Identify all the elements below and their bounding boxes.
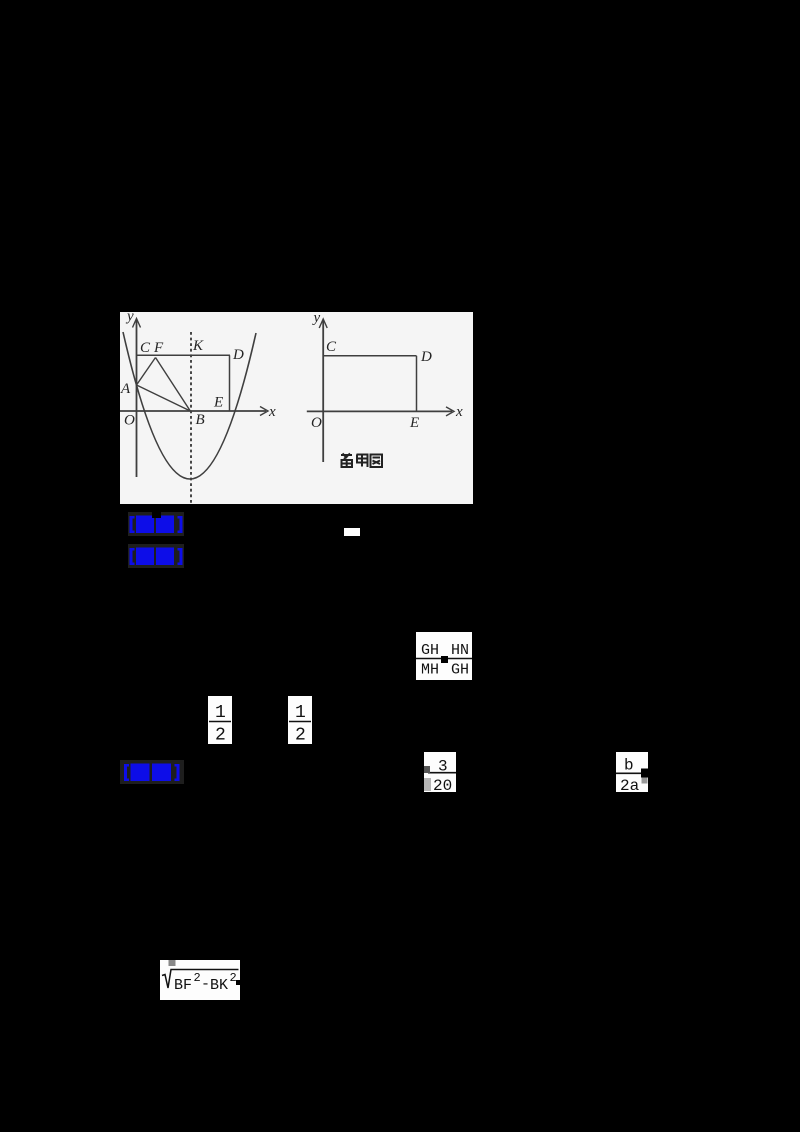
right figure y-axis [322,321,324,463]
svg-text:2a: 2a [620,777,640,792]
svg-text:K: K [192,338,204,354]
fraction bars [416,658,472,660]
right rectangle right edge DE [416,356,418,412]
svg-text:GH: GH [451,662,469,679]
svg-text:b: b [624,757,634,775]
glyph 图 [371,455,383,468]
svg-text:C: C [326,339,337,355]
triangle side A-F [137,358,156,386]
svg-text:F: F [153,340,164,356]
caption 备用图 drawn as three CJK-like glyph blocks [341,454,382,468]
fraction b/2a [616,752,648,792]
svg-text:D: D [420,349,432,365]
dashed axis of symmetry [190,332,192,504]
svg-text:O: O [124,413,135,429]
equals blotch [441,656,448,663]
left figure x-axis [120,410,266,412]
fraction 1/2 (first) [208,696,232,744]
svg-text:MH: MH [421,662,439,679]
right rectangle top edge CD [323,355,416,357]
svg-text:x: x [268,404,276,420]
svg-text:HN: HN [451,642,469,659]
svg-text:GH: GH [421,642,439,659]
svg-text:1: 1 [215,703,226,723]
svg-text:2: 2 [295,726,306,745]
svg-text:E: E [409,415,419,431]
rectangle top edge CD [137,354,231,356]
svg-text:2: 2 [194,971,201,985]
glyph 用 [357,455,368,468]
fraction GH/MH = HN/GH [416,632,472,680]
parabola [123,332,256,479]
svg-text:B: B [196,412,205,428]
svg-text:E: E [213,395,223,411]
blue label 【解答】 [120,760,184,784]
svg-text:BK: BK [210,977,228,994]
white blank dash after 考点 [344,528,360,536]
svg-text:BF: BF [174,977,192,994]
radical [162,970,239,989]
blue label 【考点】 [128,512,184,536]
svg-text:2: 2 [215,726,226,745]
svg-text:O: O [311,415,322,431]
fraction 3/20 [424,752,456,792]
svg-text:1: 1 [295,703,306,723]
sqrt(BF^2-BK^2) [160,960,240,1000]
svg-text:y: y [312,312,321,326]
rectangle right edge DE [229,355,231,411]
svg-text:20: 20 [433,777,452,792]
triangle side A-B [137,385,191,411]
svg-text:C: C [140,340,151,356]
right figure x-axis [307,410,452,412]
svg-text:A: A [120,381,131,397]
figure panel with two coordinate graphs [120,312,473,504]
svg-text:y: y [125,312,134,325]
black notch [236,980,240,985]
blue label 【分析】 [128,544,184,568]
svg-text:x: x [455,404,463,420]
svg-text:-: - [201,976,210,993]
glyph 备 [341,454,352,468]
black notch on 考点 box top [152,512,161,518]
grey artifact [169,960,176,966]
left figure y-axis [136,320,138,477]
svg-text:D: D [232,347,244,363]
triangle side F-B [156,358,191,412]
svg-text:2: 2 [230,971,237,985]
fraction 1/2 (second) [288,696,312,744]
